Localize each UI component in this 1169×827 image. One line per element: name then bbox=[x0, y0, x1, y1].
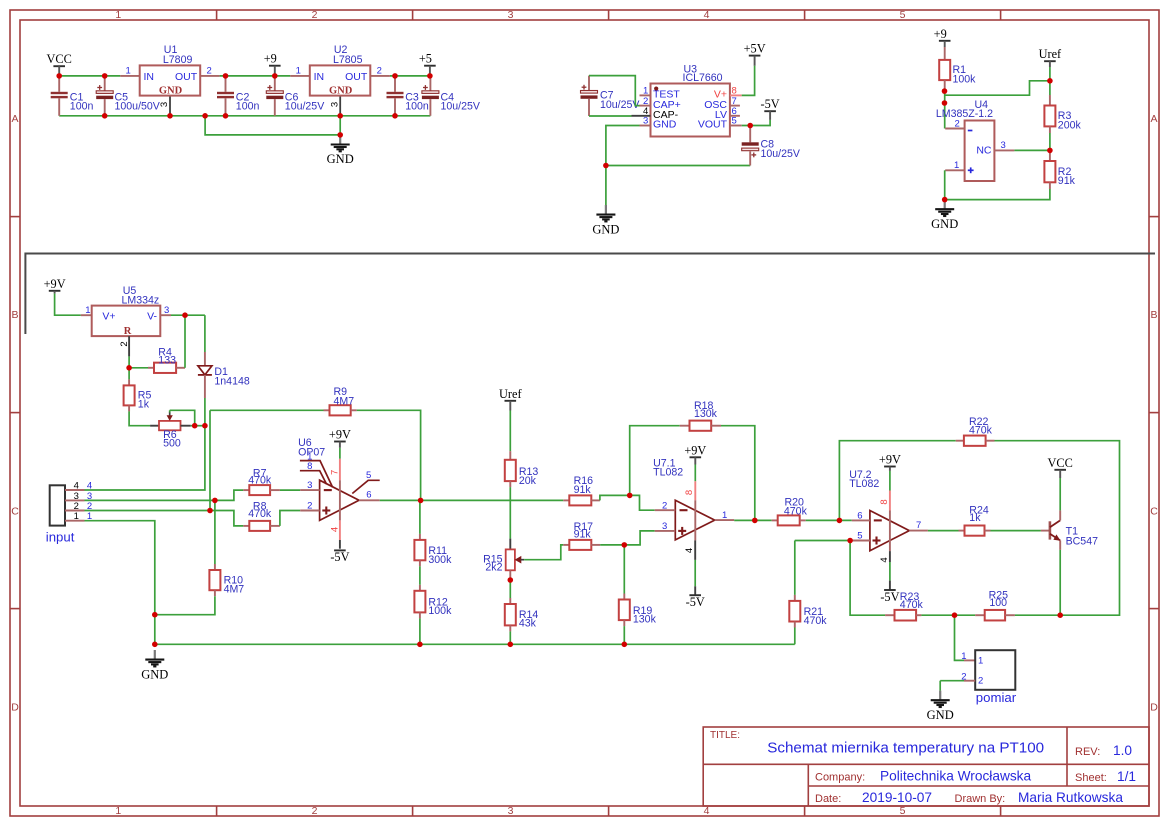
input pin 2 bbox=[65, 510, 85, 512]
svg-text:TL082: TL082 bbox=[653, 466, 683, 478]
svg-text:1: 1 bbox=[296, 65, 301, 76]
svg-text:LM385Z-1.2: LM385Z-1.2 bbox=[936, 108, 993, 120]
svg-text:+9: +9 bbox=[264, 52, 277, 66]
svg-text:3: 3 bbox=[643, 116, 648, 127]
svg-text:Schemat miernika temperatury n: Schemat miernika temperatury na PT100 bbox=[767, 740, 1044, 757]
U6 pin 8 offset bbox=[300, 471, 327, 485]
svg-text:8: 8 bbox=[307, 461, 312, 472]
U3 pin 5 VOUT bbox=[730, 125, 742, 127]
wire R20 to U7.2 pin6 bbox=[806, 519, 852, 521]
resistor R8 470k bbox=[243, 525, 249, 527]
svg-text:Sheet:: Sheet: bbox=[1075, 772, 1107, 784]
svg-text:3: 3 bbox=[329, 102, 340, 107]
svg-text:IN: IN bbox=[144, 71, 155, 83]
wire R1 bottom to U4 pin2 bbox=[944, 91, 946, 128]
svg-text:1.0: 1.0 bbox=[1113, 743, 1132, 758]
svg-text:+9V: +9V bbox=[329, 428, 351, 442]
resistor R20 470k bbox=[772, 519, 778, 521]
wire R2 bottom to gnd bbox=[945, 189, 1050, 200]
svg-text:4: 4 bbox=[329, 527, 340, 532]
capacitor C4 bbox=[429, 76, 431, 91]
resistor R23 470k bbox=[885, 614, 894, 616]
svg-text:470k: 470k bbox=[969, 425, 993, 437]
svg-text:4: 4 bbox=[704, 805, 710, 817]
resistor R2 91k bbox=[1049, 150, 1051, 161]
svg-text:4: 4 bbox=[879, 557, 890, 562]
wire R25 to emitter node bbox=[1015, 614, 1060, 616]
resistor R3 200k bbox=[1049, 95, 1051, 106]
svg-text:5: 5 bbox=[732, 116, 737, 127]
svg-text:7: 7 bbox=[329, 470, 340, 475]
input pin 1 bbox=[65, 520, 85, 522]
svg-text:1: 1 bbox=[954, 160, 959, 171]
section partition line bbox=[25, 254, 1155, 335]
resistor R1 100k bbox=[944, 47, 946, 60]
wire VCC to collector bbox=[1059, 478, 1061, 510]
svg-text:2019-10-07: 2019-10-07 bbox=[862, 790, 932, 805]
op-amp U7.2 TL082 bbox=[870, 511, 909, 551]
resistor R12 100k bbox=[419, 585, 421, 591]
svg-text:10u/25V: 10u/25V bbox=[600, 99, 640, 111]
wire input pin1 to gnd bbox=[85, 521, 155, 645]
svg-text:7: 7 bbox=[916, 520, 921, 531]
wire R9 left down to pin2 net bbox=[209, 410, 211, 510]
wire R6 wiper loop bbox=[170, 410, 195, 425]
wire emitter down bbox=[1059, 550, 1061, 615]
svg-text:GND: GND bbox=[592, 222, 619, 236]
resistor R24 1k bbox=[959, 530, 965, 532]
U3 pin 4 CAP- bbox=[632, 115, 651, 117]
svg-text:470k: 470k bbox=[784, 505, 808, 517]
svg-text:Politechnika Wrocławska: Politechnika Wrocławska bbox=[880, 768, 1032, 783]
svg-text:+9: +9 bbox=[934, 27, 947, 41]
svg-text:43k: 43k bbox=[519, 618, 537, 630]
connector pomiar bbox=[955, 615, 965, 660]
U7.1 pin 1 output bbox=[715, 519, 735, 521]
capacitor C6 bbox=[274, 76, 276, 91]
svg-text:R: R bbox=[124, 326, 132, 337]
wire U6 output row bbox=[380, 499, 564, 501]
capacitor C8 bbox=[749, 126, 751, 143]
svg-text:6: 6 bbox=[857, 510, 862, 521]
svg-text:Company:: Company: bbox=[815, 771, 865, 783]
svg-text:4M7: 4M7 bbox=[224, 584, 245, 596]
svg-text:LM334z: LM334z bbox=[122, 294, 160, 306]
svg-text:2: 2 bbox=[207, 65, 212, 76]
U7.1 pin 4 V- bbox=[694, 540, 696, 560]
svg-text:100n: 100n bbox=[70, 101, 94, 113]
svg-text:1k: 1k bbox=[138, 399, 150, 411]
gnd symbol top rail bbox=[339, 135, 341, 144]
U6 pin 3 bbox=[300, 489, 319, 491]
wire R18 right to output bbox=[721, 426, 755, 521]
svg-text:B: B bbox=[1150, 309, 1157, 321]
svg-text:91k: 91k bbox=[574, 484, 592, 496]
svg-text:GND: GND bbox=[927, 708, 954, 722]
regulator U2 L7805 bbox=[290, 75, 310, 77]
svg-text:200k: 200k bbox=[1058, 119, 1082, 131]
svg-text:5: 5 bbox=[900, 805, 906, 817]
U6 pin 2 bbox=[300, 510, 319, 512]
svg-text:2: 2 bbox=[307, 501, 312, 512]
title block bbox=[703, 727, 1149, 806]
svg-text:+9V: +9V bbox=[44, 277, 66, 291]
wire +9V to U5 bbox=[55, 294, 81, 316]
svg-text:-5V: -5V bbox=[686, 595, 705, 609]
wire U7.1 out to R20 bbox=[734, 519, 772, 521]
svg-text:REV:: REV: bbox=[1075, 746, 1100, 758]
svg-text:V-: V- bbox=[147, 311, 157, 323]
svg-text:100k: 100k bbox=[953, 73, 977, 85]
wire gnd bottom link bbox=[606, 165, 750, 167]
svg-text:pomiar: pomiar bbox=[976, 690, 1017, 705]
wire R17 to U7.1 pin3 bbox=[600, 531, 655, 545]
svg-text:-5V: -5V bbox=[330, 550, 349, 564]
wire U4 pin3 to divider bbox=[1014, 149, 1050, 151]
svg-text:4: 4 bbox=[684, 548, 695, 553]
wire U4 pin1 to gnd bbox=[944, 170, 946, 199]
svg-text:NC: NC bbox=[976, 145, 992, 157]
resistor R7 470k bbox=[243, 489, 249, 491]
svg-text:1: 1 bbox=[978, 655, 983, 666]
svg-text:GND: GND bbox=[159, 86, 183, 97]
svg-text:1: 1 bbox=[115, 9, 121, 21]
wire R4 right up to V- bbox=[184, 315, 186, 368]
U5 pin 3 wire bbox=[160, 314, 171, 316]
wire U1out to U2in bbox=[220, 75, 291, 77]
wire C7 top to CAP+ bbox=[589, 76, 640, 106]
svg-text:V+: V+ bbox=[102, 311, 115, 323]
svg-text:5: 5 bbox=[366, 470, 371, 481]
U3 pin 1 TEST bbox=[640, 94, 651, 96]
wire current source down to input pin4 bbox=[85, 426, 205, 490]
wire R5 to R6 bbox=[129, 411, 150, 425]
regulator U1 L7809 bbox=[120, 75, 139, 77]
svg-text:Date:: Date: bbox=[815, 793, 841, 805]
input pin 3 bbox=[65, 499, 85, 501]
svg-text:2: 2 bbox=[955, 118, 960, 129]
resistor R16 91k bbox=[563, 499, 569, 501]
svg-text:2: 2 bbox=[961, 671, 966, 682]
svg-text:10u/25V: 10u/25V bbox=[761, 148, 801, 160]
U3 pin 6 LV bbox=[730, 115, 740, 117]
gnd symbol U3 bbox=[605, 205, 607, 214]
wire R15 wiper to R17 bbox=[524, 545, 563, 560]
capacitor C1 bbox=[58, 76, 60, 92]
svg-text:3: 3 bbox=[159, 102, 170, 107]
svg-text:91k: 91k bbox=[1058, 175, 1076, 187]
wire U2out to +5 bbox=[390, 75, 431, 77]
svg-text:10u/25V: 10u/25V bbox=[441, 101, 481, 113]
U7.2 pin 5 bbox=[852, 540, 870, 542]
svg-text:1k: 1k bbox=[969, 512, 981, 524]
wire R16 to U7.1 pin2 bbox=[600, 495, 655, 510]
svg-text:470k: 470k bbox=[248, 508, 272, 520]
svg-text:Uref: Uref bbox=[1039, 47, 1062, 61]
U7.1 pin 2 bbox=[655, 509, 676, 511]
wire R22 right loop bbox=[995, 441, 1120, 616]
wire R24 to T1 base bbox=[991, 530, 1041, 532]
wire input pin3 net bbox=[85, 490, 244, 500]
wire gnd bus top section bbox=[59, 115, 430, 117]
potentiometer R6 500 bbox=[150, 425, 159, 427]
svg-text:D: D bbox=[1150, 701, 1158, 713]
U4 pin 3 NC bbox=[994, 149, 1014, 151]
svg-text:GND: GND bbox=[327, 152, 354, 166]
U4 pin 1 bbox=[945, 169, 964, 171]
U3 pin 3 GND bbox=[640, 125, 651, 127]
wire gnd bus bottom bbox=[155, 643, 795, 645]
svg-text:Uref: Uref bbox=[499, 387, 522, 401]
svg-text:ICL7660: ICL7660 bbox=[683, 72, 723, 84]
svg-text:OUT: OUT bbox=[345, 71, 368, 83]
svg-text:4: 4 bbox=[74, 480, 79, 491]
potentiometer R15 2k2 bbox=[509, 539, 511, 550]
resistor R25 100 bbox=[955, 614, 976, 616]
wire R10 bottom bbox=[155, 596, 215, 615]
svg-text:91k: 91k bbox=[574, 528, 592, 540]
U6 pin 6 output bbox=[359, 499, 380, 501]
wire R3 to NC node bbox=[1049, 133, 1051, 150]
svg-text:4: 4 bbox=[87, 480, 92, 491]
svg-text:3: 3 bbox=[1001, 140, 1006, 151]
svg-text:4M7: 4M7 bbox=[334, 396, 355, 408]
wire R9 to output bbox=[357, 410, 421, 500]
svg-text:4: 4 bbox=[704, 9, 710, 21]
U5 pin 2 (R) wire bbox=[128, 336, 130, 356]
svg-text:GND: GND bbox=[653, 119, 677, 131]
U4 pin 2 bbox=[945, 128, 964, 130]
wire Uref to R13 bbox=[509, 411, 511, 452]
svg-text:C: C bbox=[11, 505, 19, 517]
svg-text:+9V: +9V bbox=[879, 453, 901, 467]
U7.2 pin 4 V- bbox=[889, 551, 891, 562]
svg-text:Maria Rutkowska: Maria Rutkowska bbox=[1018, 790, 1123, 805]
wire R15 to R14 bbox=[509, 580, 511, 598]
svg-text:L7805: L7805 bbox=[333, 54, 363, 66]
svg-text:B: B bbox=[11, 309, 18, 321]
resistor R14 43k bbox=[509, 598, 511, 604]
svg-text:L7809: L7809 bbox=[163, 54, 193, 66]
U7.1 pin 3 bbox=[655, 530, 676, 532]
junction dots layer bbox=[56, 73, 62, 79]
svg-text:VOUT: VOUT bbox=[698, 119, 728, 131]
resistor R10 4M7 bbox=[214, 500, 216, 564]
svg-text:OUT: OUT bbox=[175, 71, 198, 83]
svg-text:10u/25V: 10u/25V bbox=[285, 101, 325, 113]
svg-text:8: 8 bbox=[879, 499, 890, 504]
wire U3 gnd bbox=[606, 126, 640, 206]
svg-text:100u/50V: 100u/50V bbox=[115, 101, 161, 113]
svg-text:3: 3 bbox=[307, 480, 312, 491]
resistor R4 133 bbox=[129, 367, 148, 369]
svg-text:A: A bbox=[1150, 113, 1157, 125]
input pin 4 bbox=[65, 489, 85, 491]
svg-text:1n4148: 1n4148 bbox=[214, 375, 249, 387]
wire U7.2 out to R24 bbox=[928, 530, 959, 532]
svg-text:TL082: TL082 bbox=[849, 478, 879, 490]
wire Uref stem bbox=[1049, 67, 1051, 95]
svg-text:100n: 100n bbox=[405, 101, 429, 113]
svg-text:300k: 300k bbox=[428, 554, 452, 566]
svg-text:20k: 20k bbox=[519, 475, 537, 487]
svg-text:3: 3 bbox=[508, 9, 514, 21]
resistor R9 4M7 feedback bbox=[210, 409, 324, 411]
U6 pin 1 offset bbox=[300, 461, 333, 488]
svg-text:GND: GND bbox=[329, 86, 353, 97]
svg-text:VCC: VCC bbox=[47, 52, 72, 66]
svg-text:2: 2 bbox=[377, 65, 382, 76]
svg-text:1: 1 bbox=[115, 805, 121, 817]
svg-text:-5V: -5V bbox=[761, 97, 780, 111]
svg-text:input: input bbox=[46, 530, 75, 545]
svg-text:D: D bbox=[11, 701, 19, 713]
U3 pin 7 OSC bbox=[730, 105, 740, 107]
svg-text:GND: GND bbox=[931, 217, 958, 231]
wire R21 to bus bbox=[794, 628, 796, 645]
svg-text:3: 3 bbox=[662, 521, 667, 532]
svg-text:IN: IN bbox=[314, 71, 325, 83]
wire C7 bottom to CAP- bbox=[589, 115, 632, 117]
U6 pin 4 V- bbox=[339, 520, 341, 540]
svg-text:GND: GND bbox=[141, 667, 168, 681]
svg-text:1: 1 bbox=[126, 65, 131, 76]
svg-text:1: 1 bbox=[74, 511, 79, 522]
svg-text:1: 1 bbox=[722, 510, 727, 521]
svg-text:2k2: 2k2 bbox=[485, 562, 502, 574]
wire +5V to pin8 bbox=[742, 66, 755, 96]
svg-text:-5V: -5V bbox=[880, 590, 899, 604]
U7.2 pin 6 bbox=[852, 519, 870, 521]
svg-text:100n: 100n bbox=[236, 101, 260, 113]
gnd symbol pomiar bbox=[939, 691, 941, 700]
pomiar pin 2 bbox=[964, 680, 975, 682]
capacitor C5 bbox=[104, 76, 106, 91]
svg-text:VCC: VCC bbox=[1048, 456, 1073, 470]
wire gnd stitch bbox=[205, 116, 340, 135]
svg-text:5: 5 bbox=[857, 531, 862, 542]
wire D1 to R6 node bbox=[204, 398, 206, 426]
svg-text:C: C bbox=[1150, 505, 1158, 517]
wire pin5 down to R23 row bbox=[850, 541, 885, 616]
svg-text:130k: 130k bbox=[633, 614, 657, 626]
svg-text:1: 1 bbox=[961, 651, 966, 662]
wire ref to Uref bbox=[945, 81, 1050, 95]
svg-text:2: 2 bbox=[312, 805, 318, 817]
op-amp U7.1 TL082 bbox=[675, 500, 714, 540]
gnd symbol input bbox=[154, 650, 156, 659]
wire R11-R12 bbox=[419, 566, 421, 585]
U6 pin 5 bbox=[352, 480, 379, 493]
resistor R17 91k bbox=[563, 544, 569, 546]
svg-text:100: 100 bbox=[989, 597, 1007, 609]
svg-text:133: 133 bbox=[158, 355, 176, 367]
svg-text:1: 1 bbox=[85, 305, 90, 316]
wire R13 to R15 bbox=[509, 487, 511, 538]
resistor R11 300k bbox=[419, 500, 421, 534]
IC U4 LM385Z-1.2 bbox=[965, 121, 995, 182]
resistor R18 130k feedback bbox=[630, 426, 680, 496]
svg-text:+5V: +5V bbox=[744, 42, 766, 56]
capacitor C2 bbox=[225, 76, 227, 92]
wire R8 right to pin2 bbox=[280, 511, 300, 526]
diode D1 1n4148 bbox=[204, 315, 206, 352]
resistor R21 470k bbox=[794, 541, 796, 595]
svg-text:A: A bbox=[11, 113, 18, 125]
U3 pin 8 V+ bbox=[730, 94, 742, 96]
svg-text:470k: 470k bbox=[248, 475, 272, 487]
resistor R19 130k bbox=[623, 545, 625, 594]
svg-text:+9V: +9V bbox=[684, 443, 706, 457]
svg-text:100k: 100k bbox=[428, 605, 452, 617]
IC U5 LM334z bbox=[81, 314, 92, 316]
svg-text:6: 6 bbox=[366, 490, 371, 501]
svg-text:1/1: 1/1 bbox=[1117, 769, 1136, 784]
resistor R13 20k bbox=[509, 451, 511, 460]
resistor R5 1k bbox=[128, 368, 130, 380]
svg-text:2: 2 bbox=[978, 676, 983, 687]
svg-text:BC547: BC547 bbox=[1066, 535, 1098, 547]
U7.2 pin 7 output bbox=[909, 530, 928, 532]
IC U3 ICL7660 bbox=[651, 84, 730, 137]
capacitor C7 bbox=[588, 76, 590, 91]
capacitor C3 bbox=[394, 76, 396, 92]
svg-text:470k: 470k bbox=[804, 615, 828, 627]
wire U2 gnd drop bbox=[339, 116, 341, 135]
svg-text:Drawn By:: Drawn By: bbox=[955, 793, 1006, 805]
svg-text:+5: +5 bbox=[419, 52, 432, 66]
svg-text:3: 3 bbox=[508, 805, 514, 817]
svg-text:130k: 130k bbox=[694, 408, 718, 420]
wire R23 to R25 node bbox=[921, 614, 954, 616]
wire input pin2 net bbox=[85, 511, 244, 526]
svg-text:8: 8 bbox=[684, 490, 695, 495]
svg-text:500: 500 bbox=[163, 438, 181, 450]
svg-text:5: 5 bbox=[900, 9, 906, 21]
svg-text:2: 2 bbox=[662, 500, 667, 511]
gnd symbol U4 bbox=[944, 200, 946, 209]
transistor T1 BC547 bbox=[1041, 530, 1050, 532]
svg-text:2: 2 bbox=[312, 9, 318, 21]
op-amp U6 OP07 bbox=[320, 480, 359, 520]
wire VCC rail bbox=[59, 75, 120, 77]
wire pin5 net bbox=[795, 540, 850, 542]
U3 pin 2 CAP+ bbox=[640, 105, 651, 107]
svg-text:TITLE:: TITLE: bbox=[710, 730, 740, 741]
resistor R22 470k feedback bbox=[839, 441, 955, 521]
connector input bbox=[50, 485, 65, 525]
wire VOUT node bbox=[742, 120, 770, 126]
svg-text:470k: 470k bbox=[900, 599, 924, 611]
